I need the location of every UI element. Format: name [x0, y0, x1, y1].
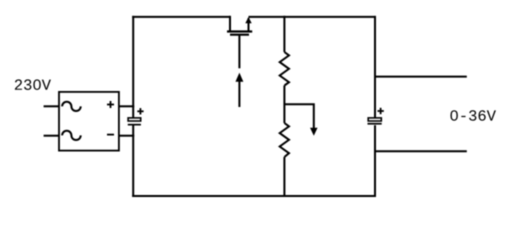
resistor R1 — [280, 52, 289, 86]
transistor Q1 channel bar — [227, 30, 252, 32]
wire top rail right segment — [249, 16, 377, 18]
capacitor C1 plus label — [137, 108, 143, 114]
wire box to rail bottom — [119, 135, 134, 137]
wire left rail lower — [132, 126, 134, 198]
transistor Q1 gate bar — [230, 34, 249, 36]
wire middle branch mid — [283, 86, 285, 124]
label 0-36V — [450, 110, 495, 121]
potentiometer wiper arrow head — [310, 128, 318, 136]
AC sine symbol 2 — [62, 131, 81, 140]
transistor Q1 gate lead — [238, 36, 240, 69]
capacitor C2 positive plate — [368, 118, 381, 121]
wire output bottom — [375, 150, 467, 152]
wire bottom rail — [132, 195, 376, 197]
wire box to rail top — [119, 105, 134, 107]
potentiometer wiper tap wire — [284, 104, 313, 128]
capacitor C1 positive plate — [128, 118, 141, 121]
control arrow up to Q1 gate — [235, 73, 243, 107]
wire right rail lower — [374, 125, 376, 197]
wire middle branch top — [283, 16, 285, 52]
wire top rail left segment — [132, 16, 230, 18]
transistor Q1 drain lead — [229, 16, 231, 32]
wire input lead bottom — [44, 135, 59, 137]
minus mark in box — [107, 134, 114, 136]
plus mark in box — [107, 101, 114, 108]
resistor R2 — [280, 123, 289, 157]
wire output top — [375, 76, 467, 78]
wire left rail upper — [132, 16, 134, 118]
capacitor C2 negative plate — [368, 123, 382, 125]
wire right rail upper — [374, 16, 376, 118]
capacitor C1 negative plate — [128, 124, 141, 126]
wire middle branch bottom — [283, 157, 285, 196]
capacitor C2 plus label — [378, 108, 384, 114]
wire input lead top — [44, 105, 59, 107]
AC source box U1 — [59, 92, 119, 151]
transistor Q1 source lead with arrow — [245, 17, 251, 32]
label 230V — [15, 79, 51, 90]
AC sine symbol 1 — [62, 102, 81, 111]
